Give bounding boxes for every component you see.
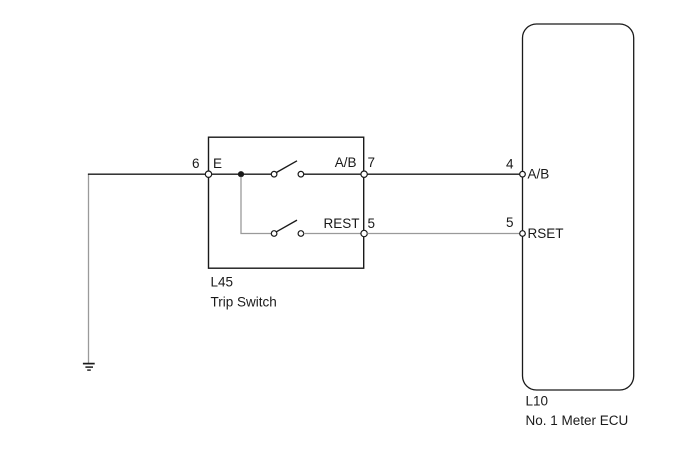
svg-text:E: E (213, 156, 222, 171)
switch 1 left contact (271, 171, 277, 177)
pin 5 terminal circle (361, 230, 367, 236)
svg-text:6: 6 (192, 156, 200, 171)
svg-text:A/B: A/B (528, 167, 550, 182)
wire: switch 2 to pin 5 (gray) (304, 233, 361, 235)
wire: pin 7 to ECU pin 4 (367, 173, 520, 175)
wire: ground riser (gray vertical) (88, 174, 90, 363)
wire: switch 1 to pin 7 (304, 173, 361, 175)
switch 2 left contact (271, 231, 277, 237)
svg-text:L45: L45 (211, 274, 234, 289)
wire: left horizontal to pin 6 (88, 173, 206, 175)
ECU pin 4 circle (520, 171, 526, 177)
svg-text:4: 4 (506, 157, 514, 172)
ECU pin 5 circle (520, 231, 526, 237)
wire: pin 5 to ECU RSET (gray) (367, 233, 520, 235)
ground (83, 364, 95, 371)
wire: junction down to switch 2 (gray L) (241, 177, 271, 234)
ECU block L10 (523, 24, 634, 390)
trip switch box L45 (209, 137, 364, 268)
svg-text:REST: REST (323, 216, 359, 231)
svg-text:5: 5 (506, 215, 514, 230)
switch 2 lever (277, 220, 297, 232)
svg-text:A/B: A/B (335, 155, 357, 170)
svg-text:L10: L10 (526, 393, 549, 408)
svg-text:7: 7 (368, 155, 376, 170)
switch 1 lever (277, 161, 297, 173)
pin 6 terminal circle (205, 171, 211, 177)
wire: pin 6 to switch 1 contact (212, 173, 272, 175)
junction node (238, 171, 244, 177)
svg-text:Trip Switch: Trip Switch (211, 294, 277, 309)
switch 1 right contact (298, 171, 304, 177)
svg-text:RSET: RSET (528, 226, 564, 241)
pin 7 terminal circle (361, 171, 367, 177)
switch 2 right contact (298, 231, 304, 237)
svg-text:5: 5 (368, 216, 376, 231)
svg-text:No. 1 Meter ECU: No. 1 Meter ECU (526, 413, 629, 428)
